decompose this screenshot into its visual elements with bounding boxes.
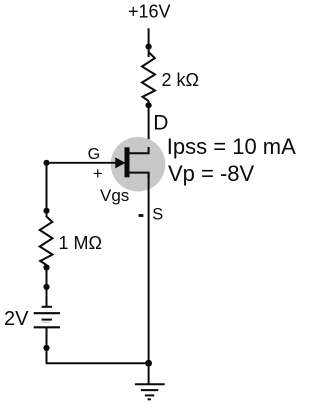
transistor Q1 gate arrow: [115, 157, 125, 168]
junction dot at ground node: [145, 360, 152, 367]
transistor Q1 channel bar: [125, 147, 130, 177]
svg-text:2 kΩ: 2 kΩ: [162, 70, 199, 90]
wire supply to R1: [148, 28, 150, 57]
junction dot below battery: [43, 345, 49, 351]
transistor Q1 drain lead: [130, 147, 149, 153]
junction dot above R2: [43, 208, 49, 214]
polarity label minus: [139, 214, 144, 217]
wire bottom horizontal: [46, 362, 149, 364]
wire source to bottom node: [148, 173, 150, 384]
svg-text:Vgs: Vgs: [100, 186, 129, 205]
ground symbol line 2: [141, 389, 158, 391]
ground symbol line 3: [145, 394, 154, 396]
junction dot at gate node: [43, 160, 49, 166]
resistor R2 1 MOhm zigzag: [40, 217, 53, 266]
svg-text:G: G: [88, 146, 100, 163]
battery V1 plate short echo: [42, 321, 50, 323]
svg-text:D: D: [153, 111, 168, 134]
svg-text:Ipss = 10 mA: Ipss = 10 mA: [167, 134, 296, 159]
svg-text:+16V: +16V: [128, 2, 171, 22]
ground symbol line 4: [148, 398, 151, 400]
ground symbol line 1: [135, 383, 165, 385]
junction dot mid gate-battery wire: [43, 284, 49, 290]
battery V1 plate short middle: [42, 319, 52, 321]
wire battery to bottom corner: [46, 327, 48, 363]
transistor Q1 JFET body highlight circle: [111, 137, 166, 192]
battery V1 plate long: [34, 312, 60, 314]
resistor R1 2 kOhm zigzag: [142, 52, 155, 101]
transistor Q1 gate lead wire: [47, 162, 119, 164]
wire R1 to drain: [148, 101, 150, 154]
junction dot below R2: [43, 264, 49, 270]
battery V1 plate short top: [42, 306, 52, 308]
wire R2 to battery: [46, 265, 48, 306]
svg-text:1 MΩ: 1 MΩ: [59, 233, 102, 253]
svg-text:S: S: [152, 206, 163, 224]
wire gate node to R2: [46, 163, 48, 217]
svg-text:2V: 2V: [4, 308, 29, 330]
junction dot at drain node: [146, 102, 152, 108]
svg-text:+: +: [93, 164, 103, 183]
transistor Q1 source lead: [130, 173, 149, 178]
svg-text:Vp = -8V: Vp = -8V: [168, 161, 255, 186]
battery V1 plate long bottom: [34, 326, 60, 328]
junction dot below +16V: [146, 44, 152, 50]
